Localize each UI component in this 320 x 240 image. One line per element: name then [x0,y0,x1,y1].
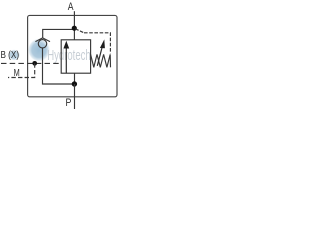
svg-text:M: M [14,67,20,78]
svg-text:P: P [66,97,72,109]
svg-text:A: A [68,1,74,13]
svg-text:Hydrotech: Hydrotech [47,47,91,64]
svg-text:B (X): B (X) [1,49,20,60]
